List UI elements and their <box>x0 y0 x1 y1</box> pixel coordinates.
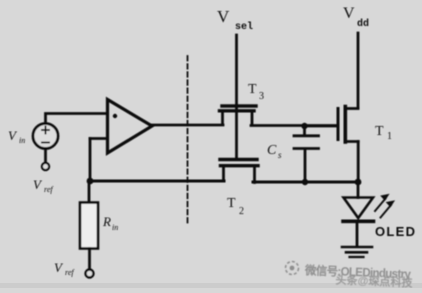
wire <box>44 149 47 163</box>
wire <box>89 139 92 182</box>
transistor T1 <box>305 107 358 183</box>
voltage source V_in <box>33 124 58 149</box>
wire V_dd <box>357 33 360 108</box>
boundary dashed line <box>187 56 189 225</box>
svg-text:C: C <box>267 143 277 158</box>
wire V_sel <box>235 35 238 158</box>
node cap bottom <box>302 179 308 185</box>
svg-text:OLED: OLED <box>375 224 415 239</box>
svg-text:T: T <box>375 124 384 139</box>
node A <box>87 178 94 185</box>
node OLED top <box>355 179 362 186</box>
svg-text:T: T <box>248 82 257 97</box>
svg-text:2: 2 <box>239 206 244 217</box>
svg-text:V: V <box>343 5 355 22</box>
svg-text:V: V <box>217 7 230 26</box>
transistor T2 <box>220 160 258 183</box>
wire <box>251 124 337 127</box>
watermark <box>285 261 414 289</box>
svg-text:in: in <box>112 223 118 232</box>
light arrows <box>375 195 394 218</box>
svg-text:3: 3 <box>259 91 264 102</box>
resistor R_in <box>80 181 98 270</box>
op-amp U1 <box>90 100 152 154</box>
diode OLED <box>343 182 374 246</box>
node cap top <box>301 123 307 129</box>
svg-text:sel: sel <box>235 21 253 33</box>
svg-text:in: in <box>19 136 25 145</box>
svg-text:dd: dd <box>357 18 369 30</box>
svg-text:1: 1 <box>387 131 392 142</box>
svg-text:s: s <box>278 150 282 160</box>
svg-text:R: R <box>102 214 111 229</box>
transistor T3 <box>220 106 257 125</box>
wire <box>46 114 108 124</box>
capacitor Cs <box>294 126 319 182</box>
terminal V_ref <box>42 163 49 170</box>
terminal V_ref bottom <box>86 270 94 278</box>
wire <box>89 180 224 183</box>
svg-text:T: T <box>227 196 236 211</box>
wire <box>152 124 223 127</box>
bottom band <box>0 283 422 288</box>
wire <box>253 181 359 184</box>
ground <box>342 247 372 257</box>
